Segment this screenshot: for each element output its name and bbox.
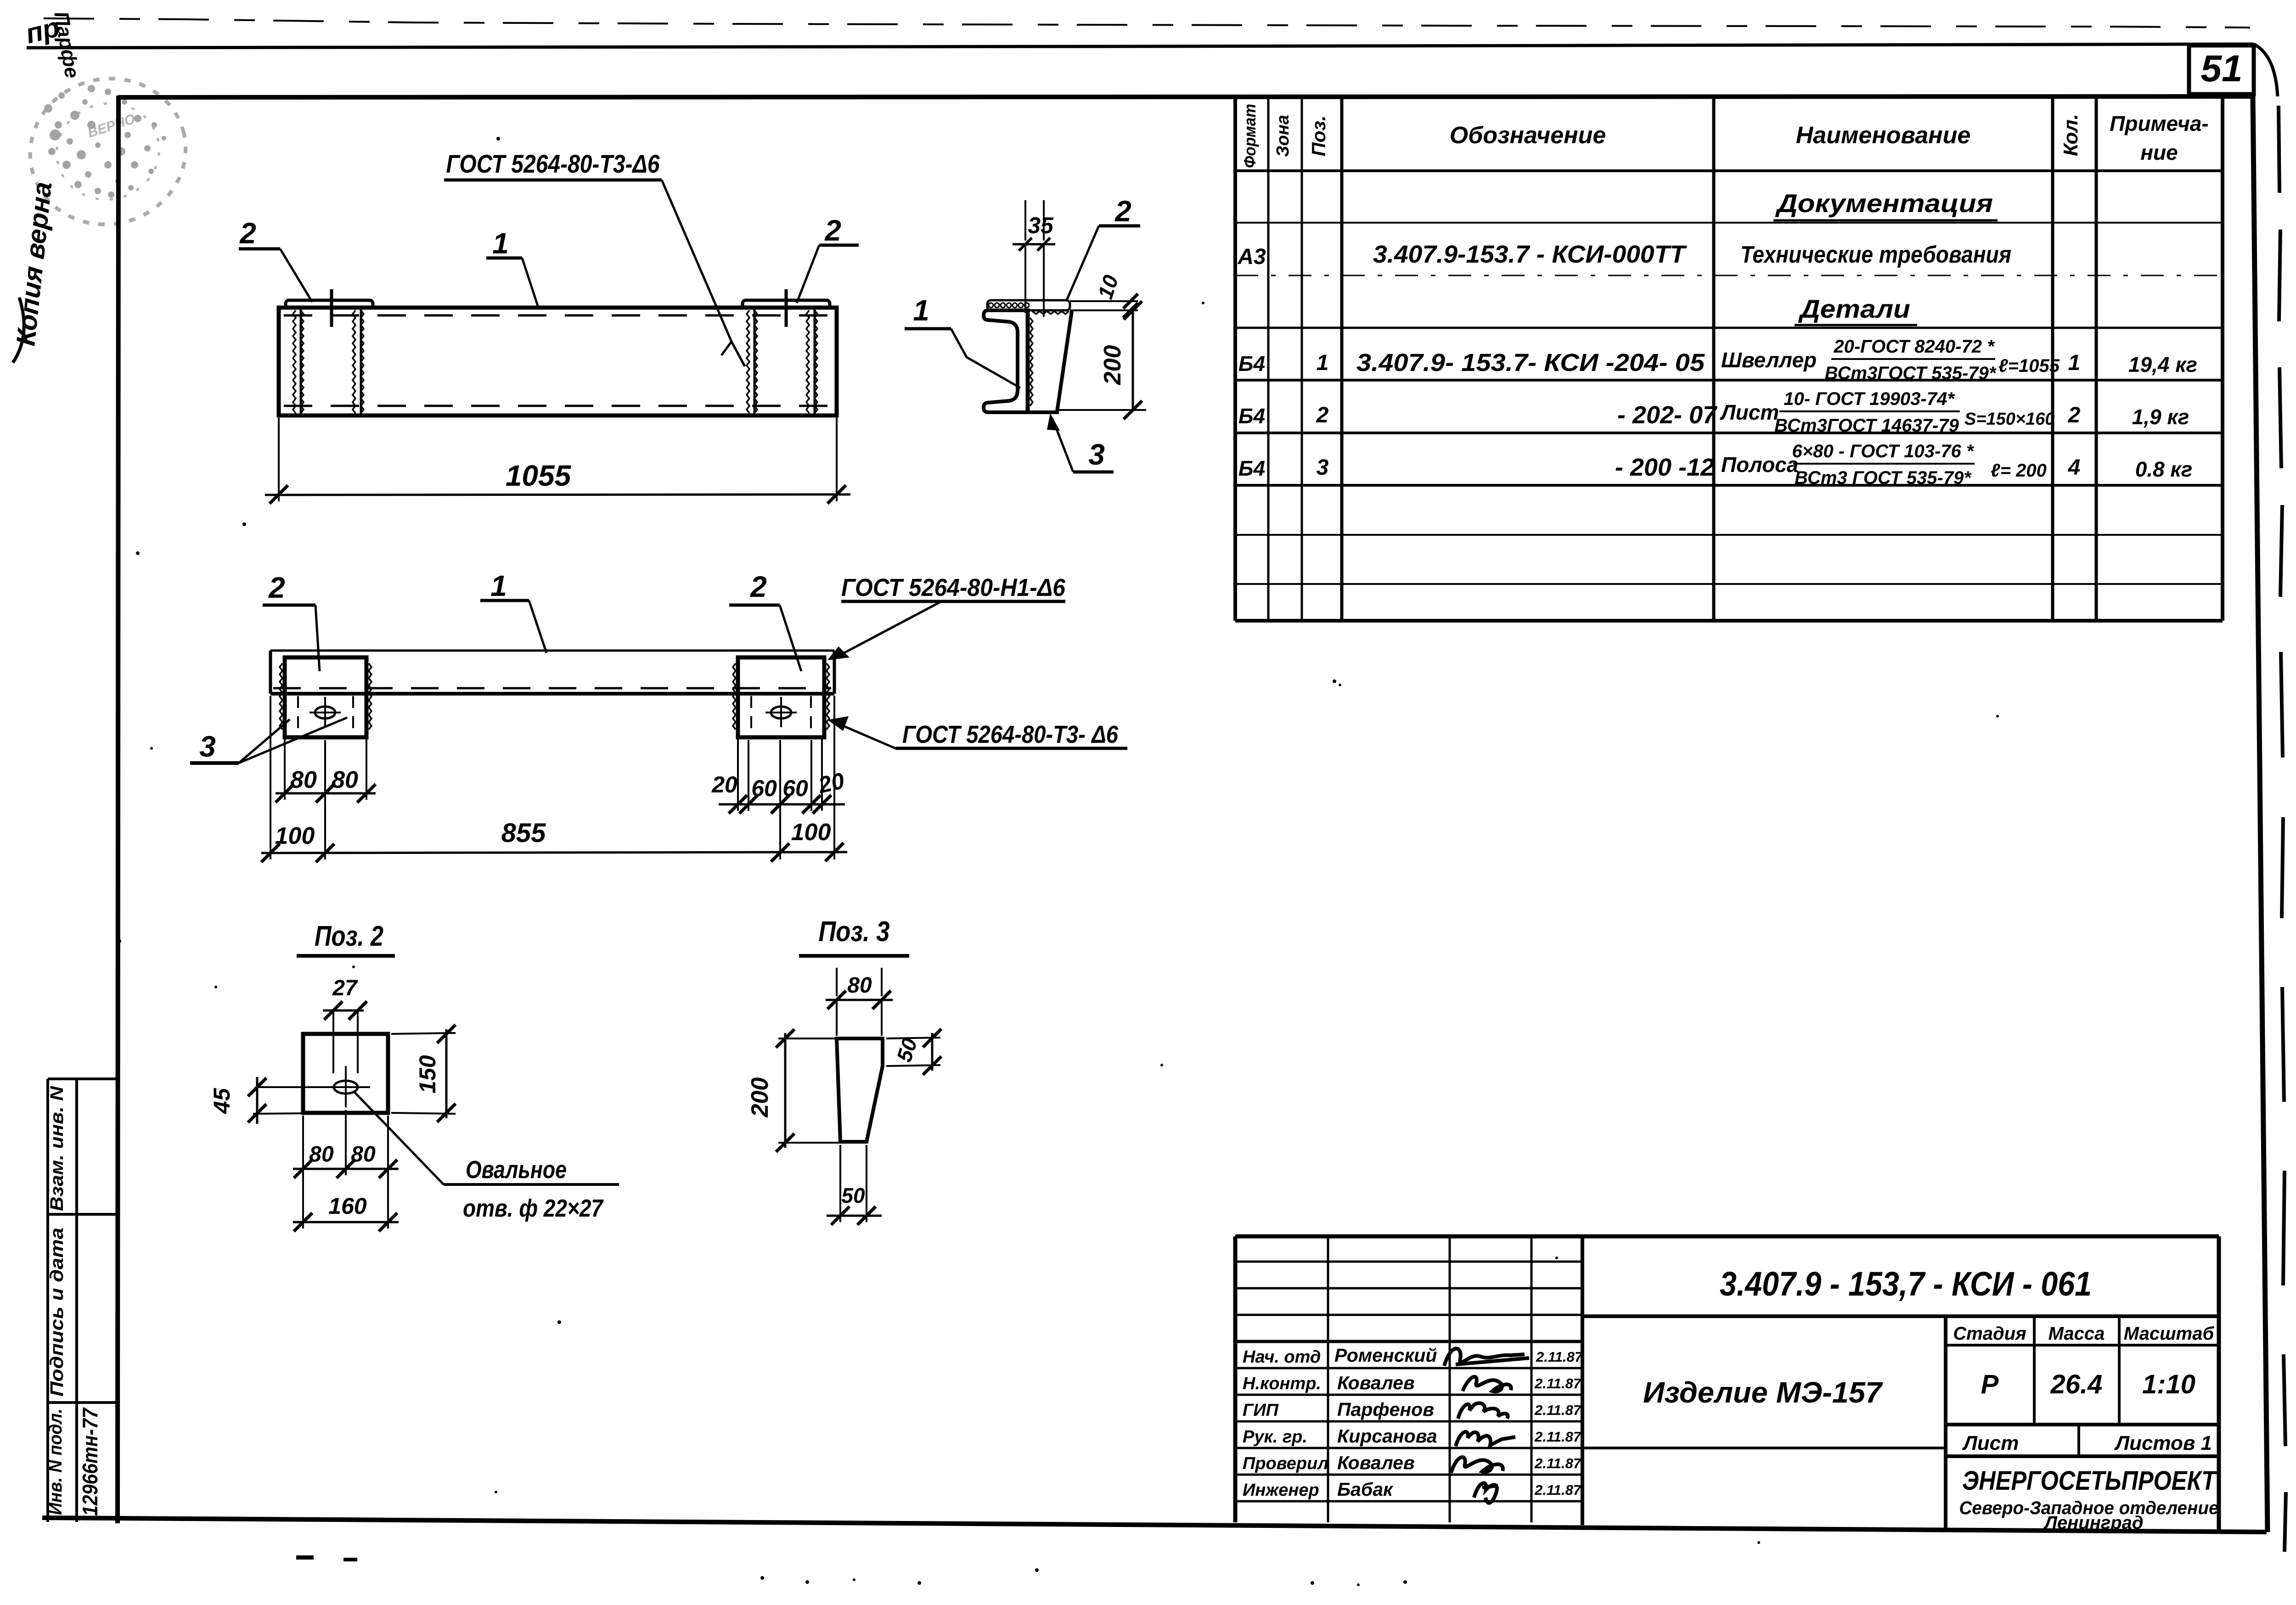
svg-text:1: 1 — [492, 227, 509, 260]
dimension 200 (section height) — [1059, 301, 1146, 419]
svg-text:4: 4 — [2068, 455, 2081, 480]
svg-text:200: 200 — [1099, 345, 1126, 386]
svg-text:Примеча-: Примеча- — [2110, 112, 2208, 135]
dimension 80 80 — [293, 1110, 399, 1229]
svg-text:Проверил: Проверил — [1243, 1454, 1328, 1473]
end plate item 2 left (square with oval hole) — [280, 657, 371, 737]
svg-text:3: 3 — [199, 730, 216, 763]
position label 2 (left) — [263, 571, 320, 671]
svg-text:Документация: Документация — [1775, 189, 1993, 218]
svg-text:45: 45 — [209, 1088, 235, 1114]
svg-text:12966тн-77: 12966тн-77 — [78, 1407, 102, 1516]
svg-text:Лист: Лист — [1962, 1432, 2019, 1454]
title block outer — [1235, 1236, 2219, 1530]
svg-text:50: 50 — [892, 1035, 922, 1065]
dimension 45 — [209, 1077, 303, 1124]
svg-text:ние: ние — [2140, 140, 2178, 164]
svg-text:Поз. 3: Поз. 3 — [819, 916, 890, 948]
dimension 10 (plate thickness) — [1093, 272, 1138, 318]
svg-text:Кирсанова: Кирсанова — [1337, 1425, 1437, 1447]
svg-text:19,4 кг: 19,4 кг — [2128, 353, 2197, 376]
svg-text:3: 3 — [1088, 438, 1105, 471]
svg-text:Изделие МЭ-157: Изделие МЭ-157 — [1643, 1376, 1883, 1409]
dimension 80 80 (left plate) — [276, 739, 376, 802]
svg-text:160: 160 — [328, 1193, 367, 1219]
svg-text:10- ГОСТ 19903-74*: 10- ГОСТ 19903-74* — [1784, 389, 1955, 409]
svg-text:80: 80 — [290, 767, 317, 793]
section heading Детали — [1798, 294, 1910, 323]
row poz.3 strip — [1238, 441, 2192, 488]
signature table grid — [1235, 1236, 1582, 1522]
svg-text:Копия верна: Копия верна — [11, 180, 57, 347]
svg-text:26.4: 26.4 — [2050, 1369, 2103, 1399]
svg-text:3.407.9-153.7 - КСИ-000ТТ: 3.407.9-153.7 - КСИ-000ТТ — [1373, 241, 1687, 268]
svg-text:27: 27 — [332, 976, 358, 1000]
svg-text:Ковалев: Ковалев — [1337, 1372, 1415, 1393]
svg-text:ГОСТ 5264-80-Т3-Δ6: ГОСТ 5264-80-Т3-Δ6 — [446, 149, 660, 178]
svg-text:Зона: Зона — [1273, 115, 1293, 157]
position label 2 (left) — [239, 217, 312, 302]
svg-text:Лист: Лист — [1720, 400, 1779, 424]
position label 2 (right) — [729, 570, 801, 671]
svg-text:Детали: Детали — [1798, 294, 1910, 323]
svg-text:Поз. 2: Поз. 2 — [315, 920, 383, 952]
end plate item 2 left, edge seen from top — [286, 289, 373, 415]
plate outline — [303, 1034, 388, 1113]
svg-text:Листов 1: Листов 1 — [2114, 1432, 2212, 1454]
svg-text:Б4: Б4 — [1238, 352, 1265, 376]
svg-text:- 202- 07: - 202- 07 — [1617, 401, 1718, 429]
svg-text:Ленинград: Ленинград — [2043, 1513, 2143, 1533]
svg-text:Поз.: Поз. — [1308, 116, 1329, 157]
svg-text:Парфенов: Парфенов — [1337, 1399, 1434, 1420]
scan specks — [118, 137, 1999, 1586]
svg-text:1,9 кг: 1,9 кг — [2132, 405, 2189, 429]
svg-text:20: 20 — [816, 768, 846, 798]
svg-text:S=150×160: S=150×160 — [1964, 410, 2055, 429]
dimension 50 (bottom) — [827, 1145, 882, 1225]
svg-text:150: 150 — [415, 1055, 440, 1094]
svg-text:Ковалев: Ковалев — [1337, 1452, 1415, 1473]
page number box 51 — [2189, 45, 2254, 94]
oval hole 22x27 — [257, 1066, 370, 1107]
svg-text:1055: 1055 — [506, 459, 572, 492]
svg-text:Кол.: Кол. — [2060, 114, 2082, 156]
row: technical requirements doc — [1237, 241, 2011, 269]
svg-text:отв. ф 22×27: отв. ф 22×27 — [463, 1195, 604, 1222]
svg-text:51: 51 — [2200, 48, 2242, 90]
stage/mass/scale boxes — [1946, 1316, 2219, 1528]
svg-text:3.407.9- 153.7- КСИ -204- 05: 3.407.9- 153.7- КСИ -204- 05 — [1356, 349, 1705, 376]
svg-text:2: 2 — [1114, 195, 1131, 228]
svg-text:Технические требования: Технические требования — [1740, 241, 2011, 268]
position label 1 — [486, 227, 539, 309]
round stamp (faded) — [14, 61, 202, 241]
svg-text:Инв. N подл.: Инв. N подл. — [45, 1409, 66, 1515]
end plate item 2 right, edge seen from top — [743, 289, 830, 415]
row poz.2 sheet — [1238, 389, 2189, 436]
svg-text:А3: А3 — [1237, 245, 1266, 269]
svg-text:2.11.87: 2.11.87 — [1534, 1455, 1582, 1471]
svg-text:2: 2 — [268, 571, 285, 604]
design organization — [1959, 1466, 2219, 1533]
svg-text:2: 2 — [750, 570, 767, 603]
svg-text:2.11.87: 2.11.87 — [1534, 1402, 1582, 1418]
svg-text:Масса: Масса — [2048, 1324, 2105, 1344]
handwritten note top-left corner — [23, 11, 62, 50]
svg-text:20-ГОСТ 8240-72 *: 20-ГОСТ 8240-72 * — [1833, 337, 1995, 357]
svg-text:6×80 - ГОСТ 103-76 *: 6×80 - ГОСТ 103-76 * — [1792, 441, 1975, 461]
svg-text:Масштаб: Масштаб — [2124, 1324, 2215, 1344]
svg-text:Формат: Формат — [1240, 104, 1259, 168]
svg-text:1: 1 — [490, 569, 507, 602]
svg-text:2: 2 — [2068, 403, 2081, 427]
svg-text:Нач. отд: Нач. отд — [1243, 1347, 1321, 1367]
svg-text:Р: Р — [1981, 1369, 1999, 1399]
svg-text:ГОСТ 5264-80-Н1-Δ6: ГОСТ 5264-80-Н1-Δ6 — [841, 574, 1066, 601]
callout oval hole — [355, 1093, 619, 1222]
signature dates 2.11.87 — [1534, 1349, 1583, 1498]
svg-text:855: 855 — [501, 818, 546, 848]
position label 1 (section) — [905, 294, 1020, 388]
svg-text:2.11.87: 2.11.87 — [1536, 1349, 1583, 1365]
top ruled line — [27, 44, 2254, 48]
svg-text:2: 2 — [824, 214, 841, 247]
svg-text:Стадия: Стадия — [1953, 1324, 2026, 1344]
svg-text:Н.контр.: Н.контр. — [1243, 1374, 1321, 1393]
svg-text:20: 20 — [711, 772, 737, 797]
svg-text:ℓ=1055: ℓ=1055 — [1998, 356, 2060, 376]
svg-text:10: 10 — [1093, 272, 1123, 302]
table header texts — [1240, 104, 2209, 168]
svg-text:1: 1 — [2068, 351, 2081, 375]
svg-text:ВСт3 ГОСТ 535-79*: ВСт3 ГОСТ 535-79* — [1795, 468, 1972, 488]
svg-text:2.11.87: 2.11.87 — [1534, 1482, 1582, 1498]
svg-text:- 200 -12: - 200 -12 — [1615, 454, 1714, 481]
torn right paper edge — [2254, 44, 2286, 1552]
svg-text:Овальное: Овальное — [466, 1156, 567, 1184]
svg-text:100: 100 — [791, 819, 831, 846]
dimension 160 — [293, 1193, 399, 1231]
svg-text:Рук. гр.: Рук. гр. — [1243, 1427, 1307, 1447]
signature rows: names — [1334, 1345, 1437, 1500]
svg-text:3.407.9 - 153,7 - КСИ - 061: 3.407.9 - 153,7 - КСИ - 061 — [1720, 1265, 2092, 1303]
row poz.1 channel — [1238, 337, 2197, 383]
svg-text:Роменский: Роменский — [1334, 1345, 1437, 1366]
strip item 3 in section (tapered edge) — [1030, 311, 1072, 411]
handwritten Копия верна (rotated) — [11, 180, 57, 363]
position label 3 with two leaders — [190, 718, 347, 763]
svg-text:80: 80 — [351, 1142, 376, 1167]
weld callout GOST 5264-80-N1-D6 — [827, 574, 1066, 660]
svg-text:2: 2 — [1316, 403, 1329, 427]
detail title Poz. 2 — [297, 920, 395, 956]
svg-text:1:10: 1:10 — [2142, 1369, 2195, 1399]
dimension 50 (right) — [886, 1029, 941, 1075]
svg-text:Б4: Б4 — [1238, 404, 1265, 428]
svg-text:Полоса: Полоса — [1721, 453, 1798, 477]
weld callout GOST 5264-80-T3-D6 — [444, 149, 745, 366]
svg-text:200: 200 — [747, 1077, 773, 1118]
svg-text:ГИП: ГИП — [1243, 1401, 1279, 1420]
position label 2 (right) — [797, 214, 859, 303]
svg-text:ЭНЕРГОСЕТЬПРОЕКТ: ЭНЕРГОСЕТЬПРОЕКТ — [1962, 1466, 2217, 1496]
signature rows: role labels — [1243, 1347, 1328, 1500]
svg-text:Инженер: Инженер — [1243, 1481, 1319, 1500]
dimension 200 (left) — [747, 1029, 838, 1152]
dimensions 100 / 855 / 100 — [261, 696, 847, 862]
svg-text:2.11.87: 2.11.87 — [1534, 1429, 1582, 1445]
svg-text:Подпись и дата: Подпись и дата — [47, 1228, 67, 1397]
svg-text:100: 100 — [275, 823, 315, 849]
position label 1 — [480, 569, 546, 653]
position label 2 (section) — [1066, 195, 1140, 301]
svg-text:3: 3 — [1317, 455, 1329, 480]
torn top edge dashed line — [44, 18, 2250, 28]
dimension 80 (top) — [826, 968, 893, 1036]
svg-text:Наименование: Наименование — [1796, 122, 1971, 149]
svg-text:Парфе: Парфе — [50, 10, 84, 80]
detail title Poz. 3 — [799, 916, 909, 956]
channel beam item 1 outline — [279, 308, 837, 415]
parts list table grid — [1235, 97, 2223, 621]
dimension 35 — [1013, 200, 1055, 317]
svg-text:80: 80 — [332, 767, 358, 793]
svg-text:1: 1 — [1317, 351, 1329, 375]
svg-text:2.11.87: 2.11.87 — [1534, 1375, 1582, 1392]
svg-text:80: 80 — [847, 973, 872, 998]
svg-text:2: 2 — [239, 217, 256, 250]
position label 3 (section) — [1047, 413, 1114, 472]
svg-text:ГОСТ 5264-80-Т3- Δ6: ГОСТ 5264-80-Т3- Δ6 — [902, 721, 1119, 748]
svg-text:Швеллер: Швеллер — [1721, 348, 1817, 372]
strip outline (trapezoid) — [837, 1038, 883, 1142]
svg-text:ВСт3ГОСТ 535-79*: ВСт3ГОСТ 535-79* — [1825, 363, 1997, 383]
dimension 150 — [391, 1025, 456, 1122]
svg-text:50: 50 — [841, 1184, 865, 1207]
svg-text:Взам. инв. N: Взам. инв. N — [47, 1086, 67, 1211]
svg-text:0.8 кг: 0.8 кг — [2135, 457, 2193, 481]
channel beam item 1 band — [270, 651, 834, 694]
weld callout GOST 5264-80-T3-D6 (lower) — [827, 716, 1127, 748]
end plate item 2 right (square with oval hole) — [733, 657, 829, 737]
svg-text:35: 35 — [1028, 213, 1054, 238]
dimension 27 — [323, 976, 367, 1073]
left margin boxes (GOST columns) — [48, 1079, 118, 1522]
svg-text:Обозначение: Обозначение — [1450, 122, 1606, 149]
section heading Документация — [1775, 189, 1993, 218]
svg-text:Бабак: Бабак — [1337, 1479, 1394, 1500]
svg-text:60: 60 — [751, 775, 777, 801]
svg-text:60: 60 — [782, 775, 808, 801]
svg-text:Б4: Б4 — [1238, 456, 1265, 480]
svg-text:80: 80 — [309, 1142, 334, 1167]
handwritten signature Парф (vertical) — [50, 10, 84, 80]
svg-text:ℓ= 200: ℓ= 200 — [1991, 460, 2047, 481]
handwritten signatures — [1444, 1348, 1529, 1503]
svg-text:ВСт3ГОСТ 14637-79: ВСт3ГОСТ 14637-79 — [1774, 415, 1959, 436]
svg-text:1: 1 — [913, 294, 929, 327]
dimension 1055 — [265, 418, 850, 504]
dimension 20 60 60 20 (right plate) — [711, 739, 846, 814]
channel item 1 cross-section — [984, 309, 1059, 414]
plate item 2 seen edge-on (top) — [987, 300, 1138, 310]
